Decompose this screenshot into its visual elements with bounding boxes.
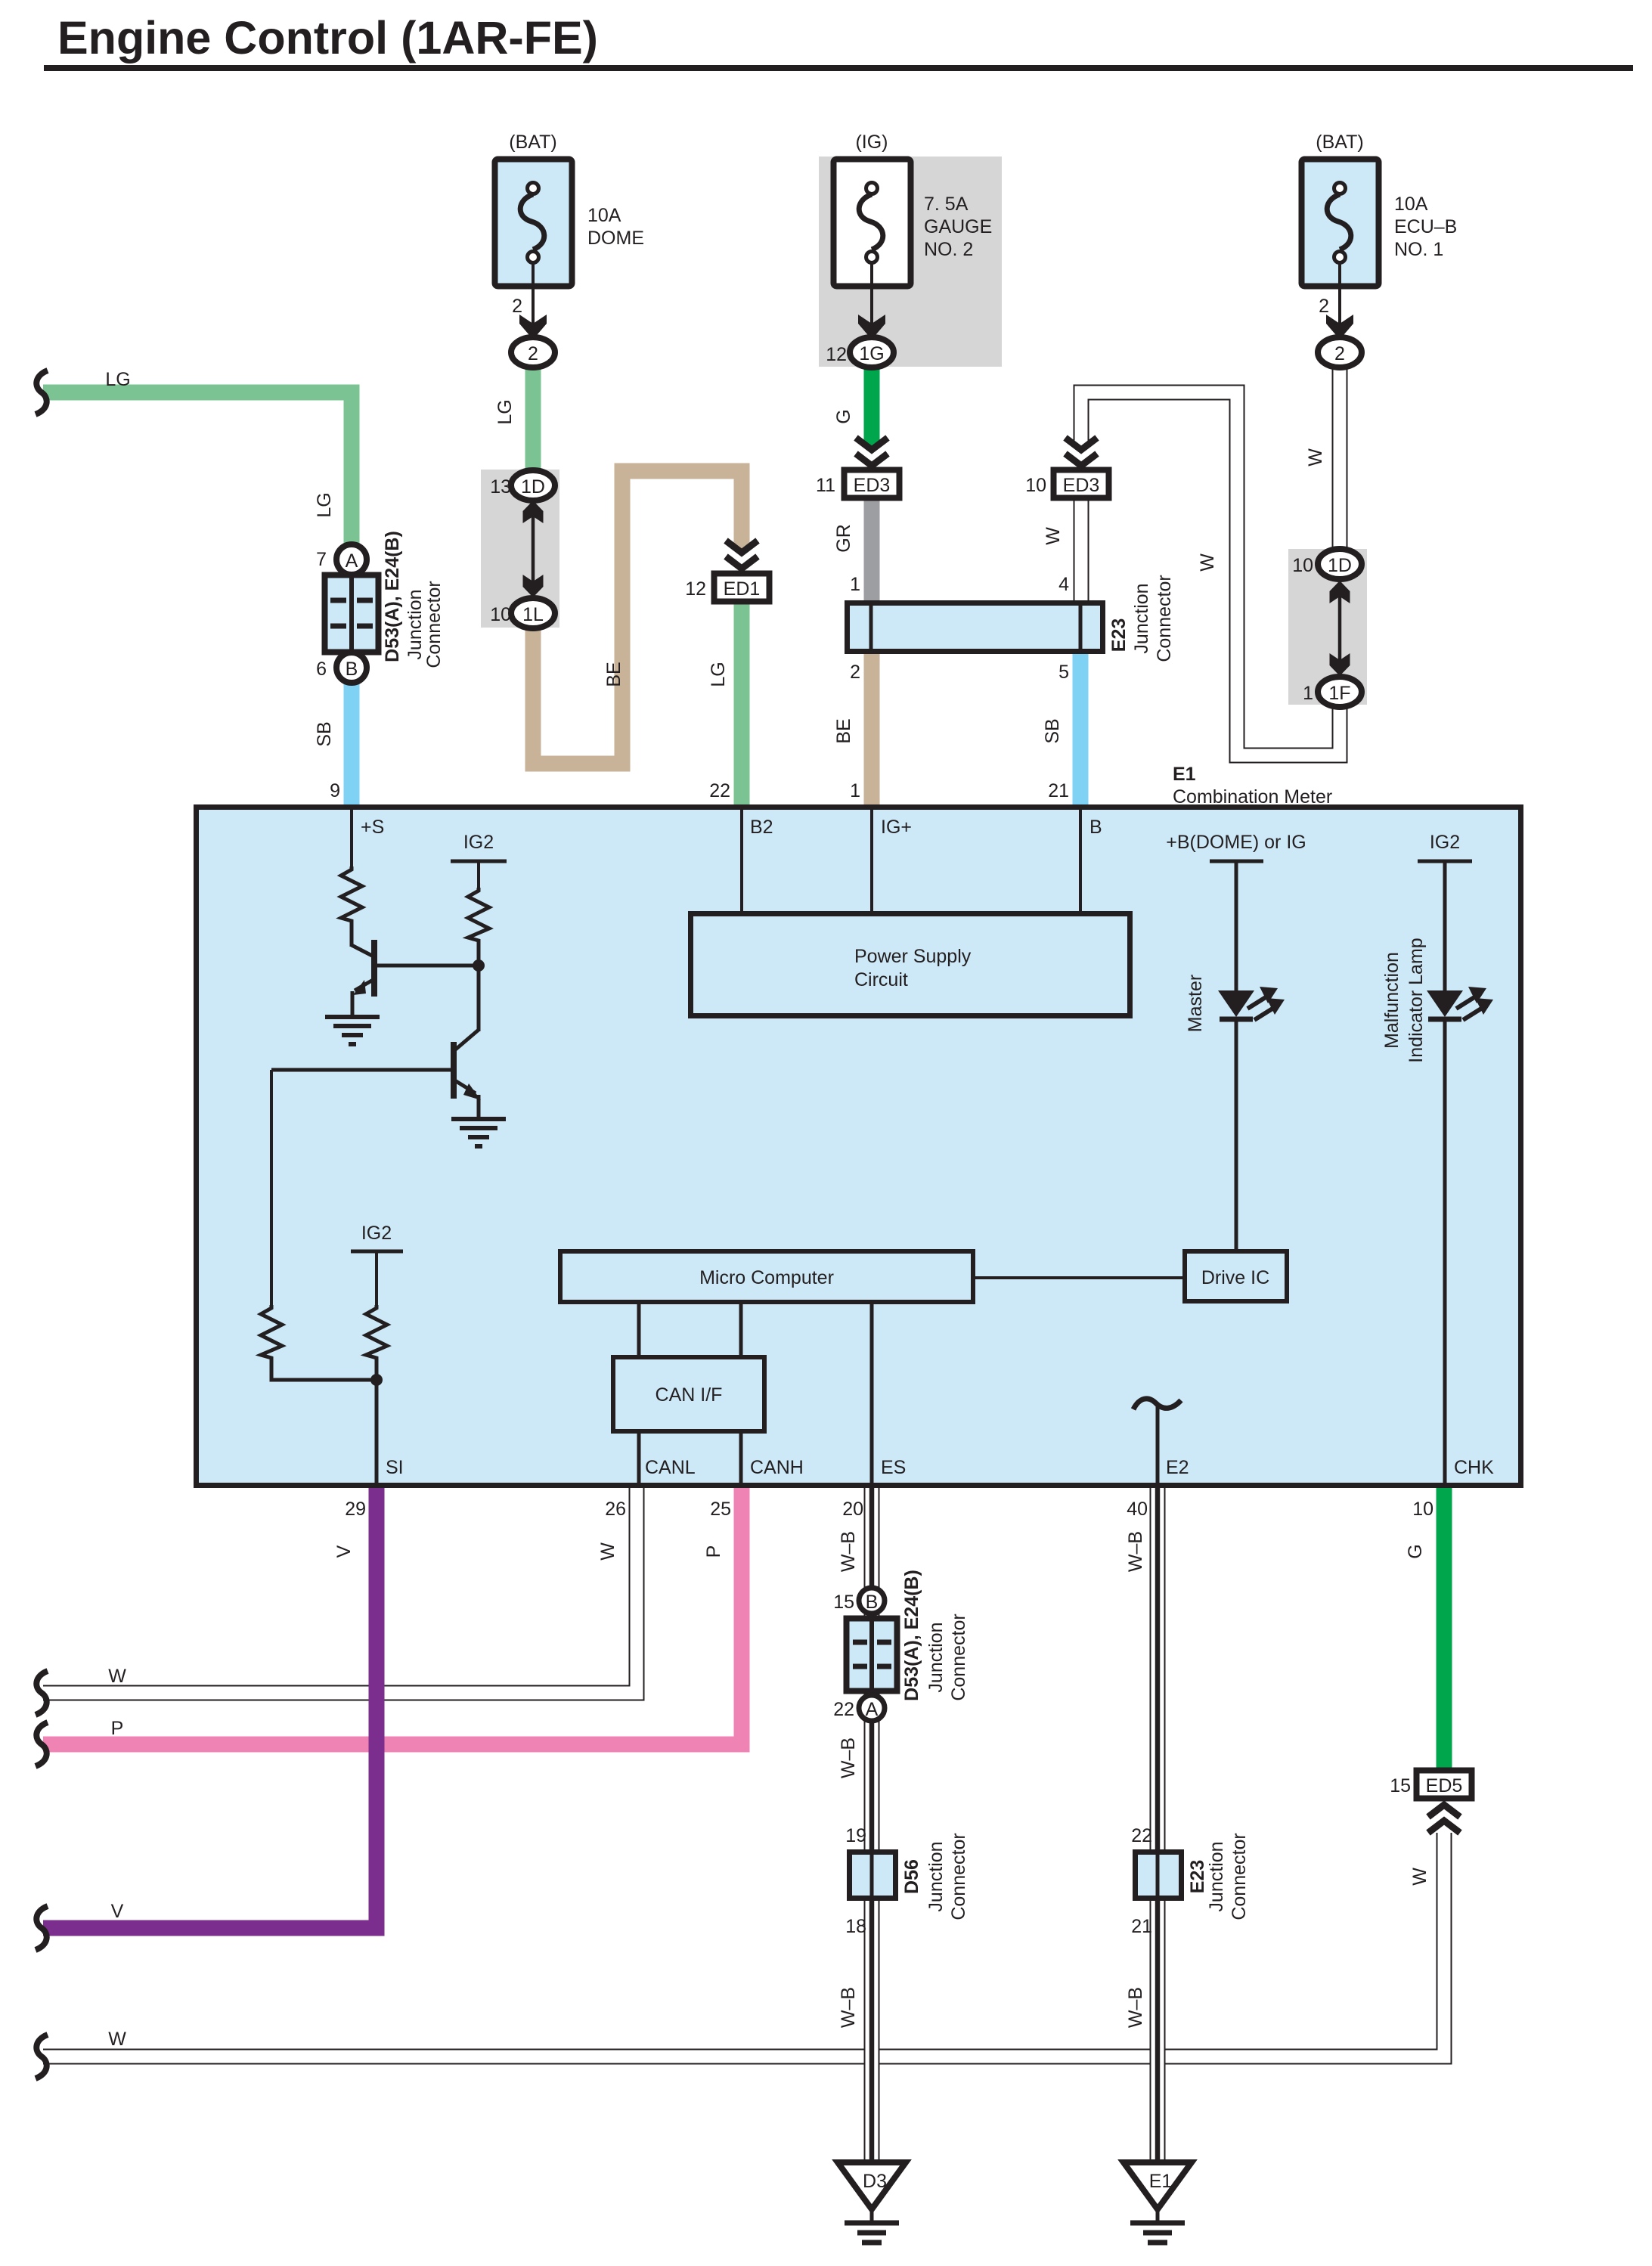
svg-text:W: W (1197, 553, 1218, 572)
wire and arrow from DOME fuse to oval 2 (512, 262, 547, 339)
transistor Q1 (352, 940, 479, 1017)
resistor R +S (341, 866, 362, 947)
wires Micro Computer to CAN I/F (639, 1302, 741, 1357)
svg-text:5: 5 (1058, 662, 1069, 683)
connector ED3 pin 11 (816, 470, 899, 498)
svg-text:Circuit: Circuit (854, 969, 908, 990)
connector oval 1D pin 10 (right) (1292, 549, 1362, 579)
transistor Q2 (271, 1030, 481, 1119)
svg-text:B: B (1089, 817, 1102, 838)
svg-text:D56: D56 (901, 1859, 922, 1894)
svg-text:Combination Meter: Combination Meter (1173, 786, 1332, 808)
svg-text:1: 1 (850, 574, 860, 595)
meter terminal labels (361, 817, 1102, 838)
LED Malfunction Indicator Lamp (1427, 987, 1493, 1020)
label Junction Connector top (404, 581, 445, 668)
svg-text:(BAT): (BAT) (1316, 132, 1363, 153)
svg-text:CHK: CHK (1454, 1457, 1494, 1478)
connector ED3 pin 10 (1025, 470, 1108, 498)
svg-text:SI: SI (386, 1457, 404, 1478)
svg-text:DOME: DOME (587, 228, 644, 249)
svg-text:LG: LG (494, 399, 516, 424)
svg-text:D53(A), E24(B): D53(A), E24(B) (382, 531, 403, 662)
wire LG from connector (left) to junction connector D53/E24 pin 7 (43, 392, 352, 547)
svg-text:ED3: ED3 (1063, 475, 1100, 496)
ground inside meter (Q1 emitter) (325, 1017, 380, 1044)
svg-text:E23: E23 (1187, 1860, 1208, 1893)
ground inside meter (Q2 emitter) (451, 1119, 506, 1146)
svg-text:V: V (333, 1545, 355, 1558)
connector brace left W (CANL) (36, 1671, 48, 1715)
svg-text:V: V (111, 1901, 124, 1922)
wire Micro Computer to ES pin (870, 1302, 874, 1485)
svg-text:CANL: CANL (645, 1457, 696, 1478)
svg-text:1: 1 (1303, 683, 1313, 704)
svg-text:ED5: ED5 (1426, 1775, 1463, 1796)
svg-text:22: 22 (833, 1699, 854, 1720)
label Junction Connector E23 bottom (1206, 1833, 1250, 1920)
box Power Supply Circuit (691, 914, 1130, 1016)
wire LG from DOME fuse oval 2 to connector 1D pin 13 (525, 365, 541, 476)
svg-text:NO. 2: NO. 2 (924, 239, 973, 260)
svg-text:12: 12 (826, 344, 847, 365)
jumper arrow between 1D and 1L (523, 501, 544, 597)
chevron arrows into ED3 pin 10 (1065, 438, 1097, 466)
svg-text:Micro Computer: Micro Computer (699, 1267, 834, 1288)
wire V from meter SI pin 29 to left connector (43, 1485, 377, 1928)
svg-text:B2: B2 (750, 817, 773, 838)
svg-text:Connector: Connector (948, 1833, 969, 1920)
fuse 7.5A GAUGE NO.2 (IG) (834, 132, 993, 287)
wire W from connector 1F pin 1 looping to connector ED3 pin 10 (1081, 392, 1340, 755)
svg-text:10: 10 (1025, 475, 1046, 496)
svg-text:ED3: ED3 (854, 475, 891, 496)
wire W from ECU-B fuse oval 2 to connector 1D pin 10 (1332, 361, 1348, 550)
node +B(DOME) or IG rail (1166, 832, 1306, 992)
svg-text:10: 10 (490, 604, 511, 625)
connector oval 2 (ECU-B) (1318, 337, 1362, 367)
svg-text:IG2: IG2 (463, 832, 494, 853)
svg-text:E1: E1 (1149, 2171, 1173, 2192)
wire from Q2 base down left column (270, 1070, 273, 1305)
wire W from meter CANL pin 26 to left connector (43, 1485, 637, 1693)
svg-text:Engine Control (1AR-FE): Engine Control (1AR-FE) (57, 12, 598, 64)
svg-text:(IG): (IG) (855, 132, 888, 153)
node IG2 rail upper (451, 832, 507, 888)
connector ED1 pin 12 (685, 574, 769, 602)
svg-text:9: 9 (330, 780, 340, 801)
svg-text:21: 21 (1048, 780, 1069, 801)
svg-text:22: 22 (709, 780, 730, 801)
wire W from connector ED3 pin 10 to junction connector E23 pin 4 (1074, 494, 1089, 605)
wire and arrow from GAUGE fuse to oval 1G (858, 262, 885, 339)
svg-text:1F: 1F (1328, 683, 1350, 704)
wire Micro Computer to Drive IC (973, 1276, 1185, 1279)
svg-text:25: 25 (710, 1499, 731, 1520)
svg-text:A: A (866, 1699, 879, 1720)
connector oval 1L pin 10 (490, 598, 555, 628)
svg-text:ECU–B: ECU–B (1394, 216, 1457, 237)
LED Master indicator (1218, 987, 1285, 1020)
node E2 squiggle (1133, 1399, 1181, 1485)
svg-text:SB: SB (314, 721, 335, 746)
svg-text:LG: LG (105, 369, 130, 390)
svg-text:+B(DOME) or IG: +B(DOME) or IG (1166, 832, 1306, 853)
svg-text:P: P (703, 1545, 724, 1558)
label Malfunction Indicator Lamp (1381, 938, 1427, 1062)
wire inside meter from +S pin to resistor (350, 810, 353, 866)
label Junction Connector E23 (1131, 575, 1175, 662)
svg-text:E23: E23 (1108, 618, 1130, 652)
svg-text:W–B: W–B (838, 1531, 859, 1572)
svg-text:22: 22 (1131, 1825, 1152, 1846)
wire SB from D53/E24 pin 6 to meter +S pin 9 (344, 681, 360, 806)
ground E1 (1124, 2162, 1192, 2243)
label Junction Connector bottom (925, 1613, 969, 1700)
svg-text:1D: 1D (1328, 555, 1352, 576)
svg-text:IG2: IG2 (1430, 832, 1460, 853)
junction dot SI (370, 1374, 383, 1386)
svg-text:Indicator Lamp: Indicator Lamp (1406, 938, 1427, 1062)
svg-text:E2: E2 (1166, 1457, 1189, 1478)
svg-text:Junction: Junction (925, 1622, 947, 1692)
svg-text:+S: +S (361, 817, 384, 838)
svg-text:G: G (1405, 1544, 1426, 1558)
connector oval 1F pin 1 (1303, 677, 1362, 707)
wire W-B from meter ES pin 20 to ground D3 (864, 1485, 880, 2162)
svg-text:20: 20 (842, 1499, 863, 1520)
wire IG+ to Power Supply (870, 810, 873, 913)
svg-text:W: W (1305, 448, 1326, 467)
connector brace left LG (36, 370, 48, 414)
svg-text:W: W (1043, 527, 1064, 545)
svg-text:P: P (111, 1718, 124, 1739)
meter bottom terminal labels (386, 1457, 1494, 1478)
svg-text:15: 15 (1390, 1775, 1411, 1796)
wire BE from junction connector E23 pin 2 to meter IG+ pin 1 (864, 650, 880, 806)
svg-text:Malfunction: Malfunction (1381, 952, 1402, 1049)
label Junction Connector D56 (925, 1833, 969, 1920)
connector brace left P (36, 1722, 48, 1766)
svg-text:1G: 1G (859, 343, 884, 364)
node IG2 rail right (1418, 832, 1472, 992)
svg-text:Drive IC: Drive IC (1201, 1267, 1269, 1288)
wire W from connector ED5 down and to left connector (43, 1833, 1444, 2057)
wire BE from connector 1L pin 10 to connector ED1 (533, 471, 742, 764)
svg-text:BE: BE (603, 662, 625, 687)
chevron arrows into ED1 (726, 541, 758, 569)
svg-text:Connector: Connector (423, 581, 445, 668)
wire LED Master to Drive IC (1235, 1019, 1238, 1251)
svg-text:W–B: W–B (838, 1737, 859, 1778)
wire LED MIL to CHK pin (1443, 1019, 1447, 1485)
svg-text:(BAT): (BAT) (509, 132, 556, 153)
wires CAN I/F to CANL CANH pins (639, 1431, 741, 1485)
svg-text:W–B: W–B (1125, 1531, 1146, 1572)
svg-text:B: B (866, 1592, 879, 1613)
wire SB from junction connector E23 pin 5 to meter B pin 21 (1073, 650, 1089, 806)
svg-text:A: A (346, 550, 358, 572)
svg-text:W: W (597, 1542, 618, 1561)
resistor R SI right (366, 1305, 387, 1485)
connector oval 1D pin 13 (490, 470, 555, 501)
svg-text:2: 2 (528, 343, 538, 364)
svg-text:11: 11 (816, 475, 835, 496)
gray background panel for connector 1D/1F (1288, 549, 1367, 705)
svg-text:Junction: Junction (925, 1841, 947, 1911)
svg-text:1: 1 (850, 780, 860, 801)
gray background panel for connector 1D/1L (481, 470, 559, 628)
svg-text:19: 19 (845, 1825, 866, 1846)
fuse 10A DOME (BAT) (495, 132, 645, 287)
svg-text:LG: LG (708, 662, 729, 687)
junction connector E23 bottom (1136, 1852, 1182, 1899)
svg-text:G: G (833, 409, 854, 423)
resistor R IG2 (468, 888, 489, 1031)
meter box E1 Combination Meter (197, 808, 1521, 1486)
box Drive IC (1185, 1251, 1287, 1301)
connector brace left W (bottom) (36, 2035, 48, 2078)
svg-text:LG: LG (314, 492, 335, 517)
wire P from meter CANH pin 25 to left connector (43, 1485, 742, 1744)
svg-text:10: 10 (1292, 555, 1313, 576)
svg-text:GR: GR (833, 524, 854, 553)
svg-text:12: 12 (685, 578, 706, 600)
svg-text:Master: Master (1185, 975, 1206, 1032)
chevron arrows into ED3 pin 11 (856, 438, 888, 466)
fuse 10A ECU-B NO.1 (BAT) (1302, 132, 1458, 287)
svg-text:IG+: IG+ (881, 817, 912, 838)
svg-text:4: 4 (1058, 574, 1069, 595)
svg-text:2: 2 (1334, 343, 1345, 364)
svg-text:W–B: W–B (838, 1987, 859, 2028)
svg-text:W: W (108, 2029, 126, 2050)
svg-text:2: 2 (1319, 296, 1329, 317)
connector brace left V (36, 1906, 48, 1950)
svg-text:ES: ES (881, 1457, 906, 1478)
connector oval 1G pin 12 (826, 337, 894, 367)
svg-text:2: 2 (850, 662, 860, 683)
connector oval 2 (DOME) (511, 337, 555, 367)
svg-text:21: 21 (1131, 1916, 1152, 1937)
svg-text:10: 10 (1412, 1499, 1433, 1520)
title: Engine Control (1AR-FE) (44, 12, 1633, 71)
svg-text:Junction: Junction (404, 589, 426, 659)
chevron arrows into ED5 (pointing up) (1428, 1805, 1460, 1833)
svg-text:40: 40 (1127, 1499, 1148, 1520)
gray background panel for GAUGE fuse (819, 157, 1002, 367)
jumper arrow between 1D and 1F (1330, 581, 1350, 676)
svg-text:7: 7 (316, 549, 327, 570)
junction connector E23 (848, 603, 1103, 652)
wire GR from connector ED3 pin 11 to junction connector E23 pin 1 (864, 494, 880, 605)
svg-text:Connector: Connector (1229, 1833, 1250, 1920)
wire G from meter CHK pin 10 to connector ED5 pin 15 (1437, 1485, 1452, 1773)
box CAN I/F (613, 1357, 764, 1431)
svg-text:W–B: W–B (1125, 1987, 1146, 2028)
svg-text:W: W (108, 1666, 126, 1687)
svg-text:E1: E1 (1173, 764, 1196, 785)
junction connector D56 (850, 1852, 896, 1899)
svg-text:13: 13 (490, 476, 511, 498)
junction dot base Q1 (473, 959, 485, 972)
svg-text:Connector: Connector (948, 1613, 969, 1700)
svg-text:18: 18 (845, 1916, 866, 1937)
svg-text:Connector: Connector (1154, 575, 1175, 662)
svg-text:IG2: IG2 (361, 1223, 392, 1244)
wire B2 to Power Supply (740, 810, 743, 913)
wire and arrow from ECU-B fuse to oval 2 (1319, 262, 1353, 339)
junction connector D53(A),E24(B) bottom (833, 1588, 897, 1721)
svg-text:Power Supply: Power Supply (854, 946, 972, 967)
svg-text:1D: 1D (521, 476, 545, 498)
svg-text:ED1: ED1 (724, 578, 761, 600)
svg-text:Junction: Junction (1131, 583, 1152, 653)
svg-text:2: 2 (512, 296, 522, 317)
svg-text:6: 6 (316, 659, 327, 680)
svg-text:1L: 1L (522, 604, 544, 625)
wire B to Power Supply (1079, 810, 1082, 913)
box Micro Computer (560, 1251, 973, 1302)
svg-text:BE: BE (833, 718, 854, 743)
ground D3 (838, 2162, 906, 2243)
wire G from GAUGE fuse oval 1G to connector ED3 pin 11 (864, 365, 880, 446)
label E1 Combination Meter (1173, 764, 1332, 808)
junction connector D53(A),E24(B) top (316, 544, 378, 683)
svg-text:B: B (346, 659, 358, 680)
svg-text:29: 29 (345, 1499, 366, 1520)
svg-text:NO. 1: NO. 1 (1394, 239, 1443, 260)
svg-text:10A: 10A (1394, 194, 1428, 215)
svg-text:W: W (1409, 1868, 1430, 1886)
connector ED5 pin 15 (1390, 1771, 1471, 1799)
svg-text:CANH: CANH (750, 1457, 804, 1478)
svg-text:15: 15 (833, 1592, 854, 1613)
svg-text:D3: D3 (863, 2171, 887, 2192)
wire LG from connector ED1 pin 12 to meter B2 pin 22 (734, 600, 750, 806)
svg-text:SB: SB (1042, 718, 1063, 743)
resistor R SI left (261, 1305, 377, 1380)
svg-text:Junction: Junction (1206, 1841, 1227, 1911)
node IG2 rail lower (351, 1223, 403, 1305)
wire W-B from meter E2 pin 40 to ground E1 (1150, 1485, 1166, 2162)
svg-text:26: 26 (605, 1499, 626, 1520)
svg-text:D53(A), E24(B): D53(A), E24(B) (901, 1570, 922, 1701)
svg-text:10A: 10A (587, 205, 621, 226)
svg-text:CAN I/F: CAN I/F (656, 1384, 723, 1406)
svg-text:GAUGE: GAUGE (924, 216, 992, 237)
svg-text:7. 5A: 7. 5A (924, 194, 969, 215)
